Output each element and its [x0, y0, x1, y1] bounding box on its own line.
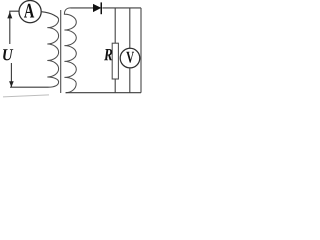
- faint scan artifact line: [3, 95, 49, 97]
- wire bottom lead of resistor R: [114, 79, 116, 93]
- wire right side vertical: [140, 8, 142, 93]
- ammeter A1 circle: [19, 1, 41, 23]
- inductor L2 secondary winding: [64, 8, 76, 93]
- voltmeter V1 label: [126, 52, 134, 63]
- wire bottom-left: [10, 86, 49, 88]
- wire secondary top to diode: [71, 7, 94, 9]
- wire top lead of voltmeter: [129, 8, 131, 48]
- resistor R label: [104, 49, 112, 60]
- wire top lead of resistor R: [114, 8, 116, 43]
- wire bottom lead of voltmeter: [129, 68, 131, 93]
- ammeter A1 label: [24, 4, 34, 18]
- wire bottom right: [66, 92, 141, 94]
- resistor R box: [112, 43, 118, 79]
- transformer core: [60, 10, 62, 93]
- wire ammeter to primary coil: [41, 12, 58, 20]
- wire top-left horizontal from U branch to ammeter: [10, 11, 19, 44]
- diode D1 cathode bar: [101, 2, 103, 14]
- voltmeter V1 circle: [120, 48, 140, 68]
- node U label: [3, 49, 13, 60]
- arrow down on left wire: [9, 81, 14, 87]
- inductor L1 primary winding: [47, 20, 58, 87]
- wire left lower segment: [10, 63, 12, 87]
- diode D1 triangle: [93, 4, 100, 11]
- wire diode to top-right corner: [102, 7, 141, 9]
- arrow up on left wire: [7, 12, 12, 19]
